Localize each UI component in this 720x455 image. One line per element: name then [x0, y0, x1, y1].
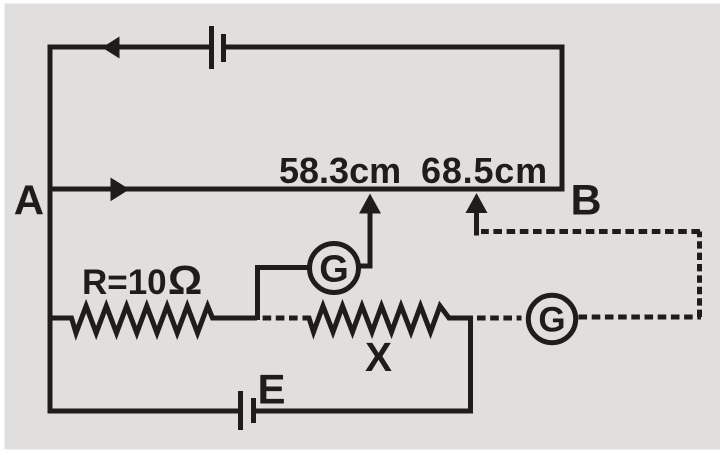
resistor X zigzag — [305, 306, 471, 332]
wire top-left segment (top loop) — [50, 47, 209, 411]
wire AB (potentiometer wire A to B) — [50, 187, 562, 192]
svg-text:E: E — [258, 366, 286, 413]
svg-text:G: G — [319, 249, 349, 291]
svg-text:A: A — [14, 177, 44, 224]
arrow current top (pointing left) — [102, 37, 120, 59]
resistor R1 (R=10 ohm) zigzag — [50, 306, 255, 333]
galvanometer G1 — [310, 244, 359, 293]
node junction vertical to G1 — [258, 268, 309, 318]
galvanometer G2 — [528, 295, 575, 342]
wire bottom-left (A to battery E) — [50, 409, 238, 414]
wire top-right segment — [226, 47, 563, 189]
svg-text:58.3cm: 58.3cm — [279, 150, 401, 191]
arrow jockey at 68.5cm (pointing up) — [466, 193, 488, 213]
svg-text:G: G — [538, 301, 565, 340]
wire dashed right vertical — [697, 232, 702, 318]
wire dashed R to X — [263, 316, 298, 321]
arrow jockey at 58.3cm (pointing up) — [359, 194, 381, 214]
wire dashed X to G2 — [477, 316, 522, 321]
wire G1 right to arrow shaft — [360, 213, 371, 266]
svg-text:R=10: R=10 — [82, 263, 167, 302]
arrow current AB (pointing right) — [111, 178, 130, 202]
wire dashed G2 to right corner — [579, 315, 702, 320]
wire bottom-right (battery E to X) — [256, 318, 471, 411]
svg-text:68.5cm: 68.5cm — [421, 150, 548, 191]
wire dashed top horizontal to arrow 68.5 — [481, 229, 700, 234]
svg-text:X: X — [365, 334, 392, 380]
svg-text:Ω: Ω — [168, 257, 202, 303]
wire arrow shaft 68.5 — [474, 212, 479, 233]
svg-text:B: B — [571, 177, 602, 225]
battery B1 (top driver cell) — [212, 26, 224, 69]
battery E (cell in secondary circuit) — [241, 391, 254, 430]
